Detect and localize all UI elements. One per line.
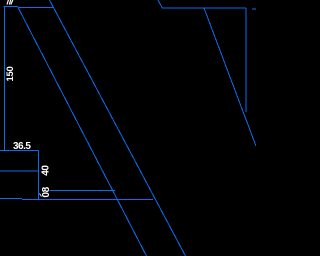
wire right edge stub: [252, 8, 256, 10]
wire hline C: [0, 170, 39, 172]
svg-text:36.5: 36.5: [13, 141, 31, 152]
wire hline F left: [0, 197, 22, 199]
wire diagonal 3: [158, 0, 163, 8]
leader tick of label 08: [40, 194, 42, 197]
svg-text:08: 08: [41, 186, 52, 197]
text fragment top-left corner: [7, 0, 13, 5]
wire top horizontal left segment: [4, 6, 19, 8]
wire left vertical: [4, 7, 6, 151]
svg-text:40: 40: [41, 165, 52, 176]
svg-text:150: 150: [5, 67, 16, 82]
wire hline D: [47, 190, 115, 192]
wire top right horizontal: [163, 7, 247, 9]
wire hline A: [0, 149, 39, 151]
wire vline B: [38, 150, 40, 200]
wire hline F right: [22, 199, 153, 201]
wire top horizontal right segment: [18, 6, 54, 8]
wire right vertical: [245, 8, 247, 112]
wire diagonal 4: [204, 8, 256, 146]
wire diagonal 2: [50, 0, 186, 256]
wire diagonal 1: [18, 7, 147, 256]
